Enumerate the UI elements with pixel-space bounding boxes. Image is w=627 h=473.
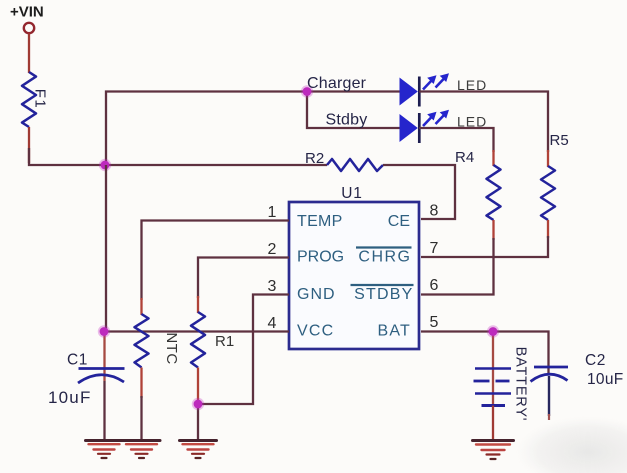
wire R4 bottom to pin 6 bbox=[421, 238, 494, 295]
wire to LED D1 anode bbox=[307, 90, 400, 92]
svg-text:NTC: NTC bbox=[163, 332, 180, 364]
svg-text:6: 6 bbox=[430, 277, 439, 294]
svg-text:CE: CE bbox=[388, 213, 410, 230]
wire NTC bottom lead bbox=[140, 368, 142, 399]
svg-text:2: 2 bbox=[268, 241, 277, 258]
wire R5 bottom lead bbox=[547, 220, 549, 238]
wire battery to ground bbox=[492, 406, 494, 442]
wire R1 to ground bbox=[197, 404, 199, 441]
wire +VIN to F1 bbox=[28, 34, 30, 74]
junction B (LED split) bbox=[301, 85, 313, 97]
capacitor C1 bbox=[78, 369, 125, 384]
svg-text:R1: R1 bbox=[215, 333, 234, 350]
svg-text:VCC: VCC bbox=[297, 323, 334, 340]
svg-text:Stdby: Stdby bbox=[326, 112, 368, 129]
wire pin 3 to GND node bbox=[198, 295, 289, 405]
ground (C1) bbox=[86, 441, 123, 459]
svg-text:8: 8 bbox=[430, 203, 439, 220]
svg-text:PROG: PROG bbox=[297, 249, 344, 266]
wire R2 to pin 8 bbox=[383, 165, 455, 219]
wire R1 top lead bbox=[197, 296, 199, 313]
wire junction A down to junction C bbox=[105, 165, 107, 332]
wire LED D1 cathode to R5 top bbox=[419, 92, 548, 153]
wire pin 5 (BAT) to C2 bbox=[421, 332, 549, 375]
svg-text:C1: C1 bbox=[67, 352, 88, 369]
battery BT1 bbox=[474, 347, 529, 422]
wire pin 1 to NTC top bbox=[142, 221, 290, 301]
wire R5 bottom to pin 7 bbox=[421, 236, 548, 257]
svg-text:7: 7 bbox=[430, 240, 439, 257]
thermistor NTC bbox=[135, 314, 181, 368]
IC U1 body bbox=[289, 202, 419, 349]
ground (R1) bbox=[180, 441, 217, 459]
svg-text:10uF: 10uF bbox=[48, 388, 92, 407]
ground (battery) bbox=[473, 441, 514, 460]
svg-text:C2: C2 bbox=[585, 352, 606, 369]
svg-text:1: 1 bbox=[268, 204, 277, 221]
svg-text:R5: R5 bbox=[550, 132, 569, 149]
svg-text:U1: U1 bbox=[341, 185, 362, 202]
svg-text:GND: GND bbox=[297, 286, 336, 303]
wire R1 bottom lead bbox=[197, 368, 199, 405]
svg-text:STDBY: STDBY bbox=[354, 286, 413, 303]
wire junction B down to LED D2 anode bbox=[307, 92, 400, 129]
wire junction C through C1 bbox=[103, 332, 105, 382]
wire junction E to battery bbox=[492, 332, 494, 407]
wire C1 to ground bbox=[103, 381, 105, 441]
junction E (BAT/battery) bbox=[487, 325, 499, 337]
wire R4 top lead bbox=[492, 150, 494, 166]
pin name STDBY (active low) bbox=[351, 285, 414, 303]
resistor F1 bbox=[22, 72, 49, 127]
resistor R2 bbox=[327, 159, 383, 171]
wire pin 2 to R1 top bbox=[198, 258, 289, 299]
wire C2 bottom stub bbox=[548, 376, 550, 416]
svg-text:Charger: Charger bbox=[307, 75, 367, 92]
svg-text:R4: R4 bbox=[455, 149, 474, 166]
svg-text:3: 3 bbox=[268, 278, 277, 295]
wire R5 top lead bbox=[547, 150, 549, 167]
terminal +VIN bbox=[24, 23, 34, 33]
wire junction A up and right to LED node bbox=[106, 92, 307, 166]
junction D (R1/GND pin) bbox=[192, 398, 204, 410]
wire F1 to junction A and on to R2 bbox=[29, 148, 327, 165]
svg-text:10uF: 10uF bbox=[587, 371, 624, 388]
svg-text:+VIN: +VIN bbox=[10, 4, 44, 21]
svg-text:BATTERY': BATTERY' bbox=[513, 347, 529, 422]
wire R4 bottom lead bbox=[492, 220, 494, 240]
wire NTC to ground bbox=[140, 396, 142, 441]
ground (NTC) bbox=[123, 441, 160, 459]
resistor R1 bbox=[191, 312, 234, 368]
junction C (VCC/C1) bbox=[98, 325, 110, 337]
LED D2 (Stdby) bbox=[400, 110, 449, 143]
wire pin 4 (VCC) to junction C bbox=[104, 330, 289, 332]
svg-text:TEMP: TEMP bbox=[297, 213, 343, 230]
svg-text:R2: R2 bbox=[305, 150, 324, 167]
watermark blob (decorative) bbox=[516, 416, 627, 473]
capacitor C2 bbox=[531, 367, 569, 382]
junction A bbox=[99, 159, 111, 171]
svg-text:BAT: BAT bbox=[377, 323, 411, 340]
wire LED D2 cathode to R4 top bbox=[419, 128, 494, 152]
resistor R5 bbox=[541, 166, 555, 220]
pin name CHRG (active low) bbox=[356, 248, 412, 266]
svg-text:5: 5 bbox=[430, 314, 439, 331]
svg-text:CHRG: CHRG bbox=[358, 249, 411, 266]
svg-text:F1: F1 bbox=[32, 89, 49, 110]
wire F1 lead down bbox=[28, 127, 30, 163]
LED D1 (Charger) bbox=[400, 73, 449, 106]
wire NTC top lead bbox=[140, 298, 142, 315]
resistor R4 bbox=[487, 165, 501, 220]
svg-text:4: 4 bbox=[268, 315, 277, 332]
